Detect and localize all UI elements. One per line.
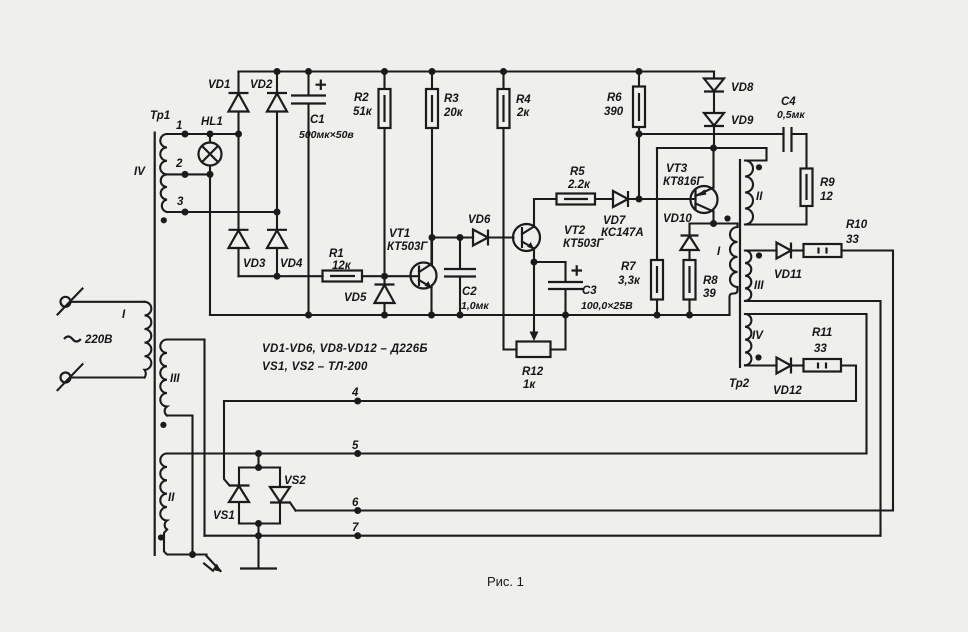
wire top rail (239, 70, 715, 72)
thyristor bridge top bus (239, 454, 280, 468)
svg-text:VD11: VD11 (774, 269, 802, 281)
svg-text:33: 33 (814, 343, 827, 355)
diode VD11 (745, 243, 804, 282)
winding Tp1-I (122, 302, 151, 378)
svg-text:VD3: VD3 (243, 258, 266, 270)
svg-text:Тр2: Тр2 (729, 378, 750, 390)
svg-text:VS1: VS1 (213, 510, 235, 522)
wire tap 1 (167, 133, 239, 135)
capacitor C2 (444, 238, 489, 316)
svg-text:HL1: HL1 (201, 116, 223, 128)
svg-text:Тр1: Тр1 (150, 110, 170, 122)
svg-text:VD1-VD6, VD8-VD12 – Д226Б: VD1-VD6, VD8-VD12 – Д226Б (262, 343, 428, 355)
resistor R2 (353, 72, 391, 277)
transistor VT1 (385, 228, 437, 315)
wire VS1 gate riser (224, 401, 230, 486)
wire 7 (205, 535, 881, 537)
svg-text:4: 4 (351, 387, 359, 399)
svg-text:33: 33 (846, 234, 859, 246)
svg-text:5: 5 (352, 440, 359, 452)
svg-text:51к: 51к (353, 106, 373, 118)
svg-text:IV: IV (752, 330, 764, 342)
wire tap 2 (167, 173, 210, 175)
svg-text:VD1: VD1 (208, 79, 230, 91)
ground bar (240, 567, 277, 569)
svg-text:R9: R9 (820, 177, 835, 189)
svg-text:R8: R8 (703, 275, 718, 287)
resistor R10 (804, 219, 894, 511)
label 220V (64, 337, 81, 342)
transformer Tp1 core (154, 132, 156, 557)
svg-text:C2: C2 (462, 286, 477, 298)
diode VD2 (250, 72, 287, 213)
svg-text:КТ503Г: КТ503Г (563, 238, 604, 250)
svg-text:220В: 220В (84, 334, 113, 346)
svg-text:1,0мк: 1,0мк (461, 300, 489, 312)
svg-text:39: 39 (703, 288, 716, 300)
winding Tp2-II (745, 148, 767, 225)
winding Tp1-III (160, 340, 204, 555)
node base VT1 (381, 273, 388, 280)
svg-text:C1: C1 (310, 114, 325, 126)
svg-text:IV: IV (134, 166, 146, 178)
input terminal top (58, 289, 145, 315)
svg-text:R1: R1 (329, 248, 344, 260)
svg-text:12: 12 (820, 191, 833, 203)
svg-text:VS1, VS2 – ТЛ-200: VS1, VS2 – ТЛ-200 (262, 361, 368, 373)
svg-text:3: 3 (177, 196, 184, 208)
winding Tp1-II (158, 454, 193, 555)
resistor R9 (745, 169, 835, 225)
wire VD3/VD4 anodes to R1 (239, 275, 323, 277)
svg-text:VD6: VD6 (468, 214, 491, 226)
resistor R5 (557, 166, 614, 205)
svg-text:VS2: VS2 (284, 475, 306, 487)
lamp HL1 (199, 116, 223, 174)
diode VD8 (704, 72, 754, 114)
svg-text:II: II (168, 492, 175, 504)
svg-text:VD12: VD12 (773, 385, 802, 397)
svg-text:R7: R7 (621, 261, 636, 273)
thyristor bridge bottom bus (239, 522, 280, 524)
resistor R3 (426, 72, 464, 265)
svg-text:Рис. 1: Рис. 1 (487, 574, 524, 589)
transformer Tp2 core (739, 159, 741, 368)
wire winding III top to wire 7 (203, 340, 205, 536)
svg-text:VD10: VD10 (663, 213, 692, 225)
svg-text:VT3: VT3 (666, 163, 688, 175)
svg-text:6: 6 (352, 497, 359, 509)
svg-text:R5: R5 (570, 166, 585, 178)
svg-text:0,5мк: 0,5мк (777, 109, 805, 121)
transistor VT2 (513, 199, 604, 337)
diode VD4 (267, 212, 303, 276)
winding Tp2-IV (745, 314, 867, 454)
svg-text:КТ816Г: КТ816Г (663, 176, 704, 188)
wire lamp bottom to ground rail (209, 174, 211, 315)
diode VD9 (704, 113, 754, 148)
wire 6 (296, 509, 894, 511)
wire tap 3 (167, 211, 277, 213)
wire VT1 collector to VD6 (432, 236, 473, 238)
winding Tp2-I (717, 215, 738, 315)
diode VD12 (773, 358, 804, 398)
zener VD7 (601, 191, 696, 239)
capacitor C1 (291, 72, 354, 316)
svg-text:3,3к: 3,3к (618, 275, 641, 287)
wire VT3 emitter line (657, 147, 767, 149)
wire 4 (224, 400, 856, 402)
chassis connection node (189, 551, 196, 558)
svg-text:R4: R4 (516, 94, 531, 106)
diode VD10 (663, 213, 699, 260)
svg-text:VD7: VD7 (603, 215, 626, 227)
transistor VT3 (639, 148, 718, 224)
resistor R1 (323, 248, 385, 282)
diode VD3 (229, 134, 266, 276)
svg-text:100,0×25В: 100,0×25В (581, 300, 633, 312)
svg-text:12к: 12к (332, 260, 352, 272)
svg-text:R2: R2 (354, 92, 369, 104)
svg-text:VT2: VT2 (564, 225, 586, 237)
svg-text:2к: 2к (516, 107, 530, 119)
svg-text:VD2: VD2 (250, 79, 273, 91)
svg-text:R11: R11 (812, 327, 832, 339)
svg-text:R12: R12 (522, 366, 544, 378)
resistor R7 (618, 148, 663, 315)
svg-text:R6: R6 (607, 92, 622, 104)
wire bridge to ground (257, 524, 259, 569)
potentiometer R12 (517, 315, 566, 391)
svg-text:VT1: VT1 (389, 228, 410, 240)
svg-text:R10: R10 (846, 219, 868, 231)
resistor R6 (604, 72, 645, 200)
svg-text:C4: C4 (781, 96, 796, 108)
resistor R8 (684, 260, 719, 315)
wire R6 to C4 (639, 127, 784, 134)
svg-text:II: II (756, 191, 763, 203)
thyristor VS2 (270, 468, 306, 524)
wire 5 (167, 452, 867, 454)
thyristor VS1 (213, 468, 250, 524)
svg-text:III: III (754, 280, 764, 292)
wire bottom rail (210, 314, 730, 316)
capacitor C3 (548, 262, 633, 315)
svg-text:VD5: VD5 (344, 292, 367, 304)
svg-text:390: 390 (604, 106, 624, 118)
svg-text:2: 2 (175, 158, 183, 170)
svg-text:VD4: VD4 (280, 258, 303, 270)
svg-text:1: 1 (176, 120, 182, 132)
diode VD6 (468, 214, 514, 246)
diode VD5 (344, 276, 395, 315)
svg-text:20к: 20к (443, 107, 464, 119)
wire VT3 collector line (690, 224, 738, 236)
winding Tp2-III (745, 251, 881, 536)
diode VD1 (208, 72, 249, 135)
winding Tp1-IV with taps (134, 134, 167, 223)
svg-text:1к: 1к (523, 379, 536, 391)
svg-text:КТ503Г: КТ503Г (387, 241, 428, 253)
svg-text:III: III (170, 373, 180, 385)
svg-text:7: 7 (352, 522, 359, 534)
svg-text:R3: R3 (444, 93, 459, 105)
svg-text:C3: C3 (582, 285, 597, 297)
node top rail junction dots (274, 68, 281, 75)
chassis arrow symbol (204, 556, 222, 572)
capacitor C4 (777, 96, 807, 169)
resistor R4 (498, 72, 532, 350)
svg-text:2.2к: 2.2к (567, 179, 591, 191)
resistor R11 (804, 327, 857, 401)
node VT2 emitter (531, 259, 538, 266)
wire emitter to C3 (534, 261, 566, 263)
svg-text:VD9: VD9 (731, 115, 754, 127)
input terminal bottom (58, 364, 145, 390)
svg-text:VD8: VD8 (731, 82, 754, 94)
svg-text:500мк×50в: 500мк×50в (299, 129, 354, 141)
svg-text:КС147А: КС147А (601, 227, 644, 239)
